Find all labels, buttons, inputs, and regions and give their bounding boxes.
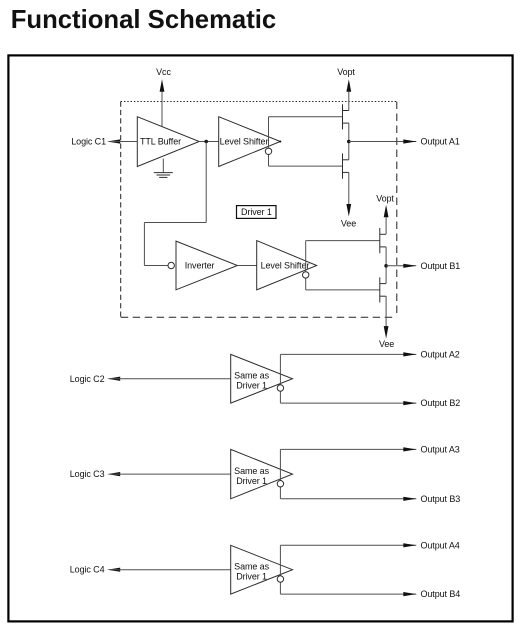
wire Vopt to Q1 drain bbox=[348, 92, 350, 111]
svg-text:Logic C2: Logic C2 bbox=[70, 374, 105, 384]
output A3 label bbox=[421, 444, 460, 454]
output B3 arrowhead bbox=[403, 497, 416, 501]
wire U5 bubble vertical bbox=[279, 354, 281, 403]
wire U7 bubble vertical bbox=[279, 545, 281, 594]
output A1 arrowhead bbox=[403, 139, 416, 143]
wire Q3 source to Q4 drain bbox=[385, 247, 387, 284]
svg-text:Driver 1: Driver 1 bbox=[236, 476, 267, 486]
input Logic C4 label bbox=[70, 565, 105, 575]
node Output A1 junction dot bbox=[347, 140, 351, 144]
svg-text:Vee: Vee bbox=[379, 339, 394, 349]
power Vee arrow 2 bbox=[384, 326, 389, 339]
driver U5 output bubble bbox=[277, 385, 283, 391]
wire Q1 source to Q2 drain bbox=[348, 123, 350, 160]
output B4 arrowhead bbox=[403, 592, 416, 596]
wire TTL buffer output bbox=[199, 141, 219, 143]
svg-text:Same as: Same as bbox=[234, 466, 269, 476]
svg-text:Same as: Same as bbox=[234, 371, 269, 381]
svg-text:Output A3: Output A3 bbox=[421, 444, 460, 454]
svg-text:Output A2: Output A2 bbox=[421, 349, 460, 359]
input Logic C3 label bbox=[70, 469, 105, 479]
transistor Q4 lower bbox=[380, 277, 386, 302]
wire lower gate rail B1 bbox=[306, 289, 380, 291]
wire Logic C1 to TTL buffer bbox=[111, 141, 138, 143]
svg-text:Logic C4: Logic C4 bbox=[70, 565, 105, 575]
output A3 arrowhead bbox=[403, 447, 416, 451]
wire Output A3 bbox=[280, 448, 416, 450]
wire Logic C2 bbox=[111, 378, 231, 380]
input Logic C3 arrowhead bbox=[107, 472, 120, 476]
node U2 apex pin bbox=[279, 141, 281, 143]
svg-text:Inverter: Inverter bbox=[185, 260, 215, 270]
level shifter U2 output bubble bbox=[265, 148, 271, 154]
level shifter U4 output bubble bbox=[303, 272, 309, 278]
node A junction dot bbox=[204, 140, 208, 144]
output B3 label bbox=[421, 494, 461, 504]
svg-text:Output A4: Output A4 bbox=[421, 540, 460, 550]
power Vcc arrow bbox=[160, 79, 165, 92]
wire Output B1 bbox=[386, 265, 416, 267]
wire Output B2 bbox=[280, 402, 416, 404]
svg-text:Level Shifter: Level Shifter bbox=[261, 260, 310, 270]
input Logic C1 label bbox=[71, 137, 106, 147]
output A4 arrowhead bbox=[403, 543, 416, 547]
svg-text:Vopt: Vopt bbox=[337, 67, 355, 77]
wire Output A2 bbox=[280, 353, 416, 355]
buffer U1 TTL Buffer bbox=[137, 117, 199, 167]
svg-text:Driver 1: Driver 1 bbox=[236, 572, 267, 582]
wire U6 bubble vertical bbox=[279, 449, 281, 498]
power Vcc label bbox=[156, 67, 171, 77]
ground symbol bbox=[154, 159, 173, 178]
transistor Q3 upper bbox=[380, 228, 386, 253]
svg-text:Driver 1: Driver 1 bbox=[236, 381, 267, 391]
svg-text:Output B3: Output B3 bbox=[421, 494, 461, 504]
driver U6 output bubble bbox=[277, 481, 283, 487]
power Vee arrow 1 bbox=[346, 204, 351, 217]
svg-text:TTL Buffer: TTL Buffer bbox=[140, 136, 181, 146]
power Vee label 1 bbox=[341, 218, 356, 228]
output B1 arrowhead bbox=[403, 264, 416, 268]
input Logic C4 arrowhead bbox=[107, 568, 120, 572]
svg-text:Vee: Vee bbox=[341, 218, 356, 228]
dashed box Driver 1 boundary bbox=[121, 102, 397, 318]
level shifter U2 bbox=[219, 117, 281, 167]
wire Q4 source to Vee bbox=[385, 296, 387, 326]
wire Output A1 bbox=[349, 141, 417, 143]
svg-text:Vopt: Vopt bbox=[376, 194, 394, 204]
wire node A to inverter input bbox=[144, 142, 206, 266]
svg-text:Output B4: Output B4 bbox=[421, 589, 461, 599]
wire Q2 source to Vee bbox=[348, 172, 350, 204]
title text bbox=[11, 6, 277, 34]
driver block U7 Same as Driver 1 bbox=[231, 545, 293, 594]
input Logic C2 label bbox=[70, 374, 105, 384]
power Vopt label 2 bbox=[376, 194, 394, 204]
svg-text:Output B1: Output B1 bbox=[421, 261, 461, 271]
node Output B1 junction dot bbox=[384, 264, 388, 268]
output A2 label bbox=[421, 349, 460, 359]
wire Logic C4 bbox=[111, 569, 231, 571]
inverter U3 bbox=[176, 241, 237, 290]
wire Logic C3 bbox=[111, 473, 231, 475]
output B4 label bbox=[421, 589, 461, 599]
input Logic C1 arrowhead bbox=[107, 139, 120, 143]
power Vopt label 1 bbox=[337, 67, 355, 77]
svg-text:Vcc: Vcc bbox=[156, 67, 171, 77]
svg-text:Logic C3: Logic C3 bbox=[70, 469, 105, 479]
input Logic C2 arrowhead bbox=[107, 377, 120, 381]
level shifter U4 bbox=[257, 241, 317, 290]
svg-text:Logic C1: Logic C1 bbox=[71, 137, 106, 147]
wire lower gate rail A1 bbox=[269, 165, 343, 167]
wire Output B3 bbox=[280, 498, 416, 500]
svg-text:Output B2: Output B2 bbox=[421, 398, 461, 408]
inverter U3 input bubble bbox=[168, 262, 174, 268]
power Vopt arrow 2 bbox=[384, 205, 389, 218]
svg-text:Output A1: Output A1 bbox=[421, 137, 460, 147]
driver block U6 Same as Driver 1 bbox=[231, 449, 293, 498]
wire inverter to level shifter 2 bbox=[237, 265, 256, 267]
wire U4 bubble vertical bbox=[305, 241, 307, 290]
wire U2 bubble vertical bbox=[268, 117, 270, 166]
output A4 label bbox=[421, 540, 460, 550]
svg-text:Driver 1: Driver 1 bbox=[241, 207, 272, 217]
driver U7 output bubble bbox=[277, 576, 283, 582]
wire Vopt to Q3 drain bbox=[385, 217, 387, 234]
wire Vcc to TTL buffer bbox=[161, 92, 163, 128]
output B1 label bbox=[421, 261, 461, 271]
output A1 label bbox=[421, 137, 460, 147]
wire Output B4 bbox=[280, 593, 416, 595]
wire upper gate rail A1 bbox=[269, 116, 343, 118]
label box Driver 1 bbox=[237, 206, 277, 219]
output A2 arrowhead bbox=[403, 352, 416, 356]
output B2 label bbox=[421, 398, 461, 408]
svg-text:Same as: Same as bbox=[234, 562, 269, 572]
output B2 arrowhead bbox=[403, 401, 416, 405]
transistor Q1 upper bbox=[343, 104, 349, 129]
svg-text:Level Shifter: Level Shifter bbox=[220, 136, 269, 146]
power Vee label 2 bbox=[379, 339, 394, 349]
svg-text:Functional Schematic: Functional Schematic bbox=[11, 6, 277, 34]
wire Output A4 bbox=[280, 544, 416, 546]
power Vopt arrow 1 bbox=[346, 79, 351, 92]
driver block U5 Same as Driver 1 bbox=[231, 354, 293, 403]
transistor Q2 lower bbox=[343, 154, 349, 179]
wire upper gate rail B1 bbox=[306, 240, 380, 242]
